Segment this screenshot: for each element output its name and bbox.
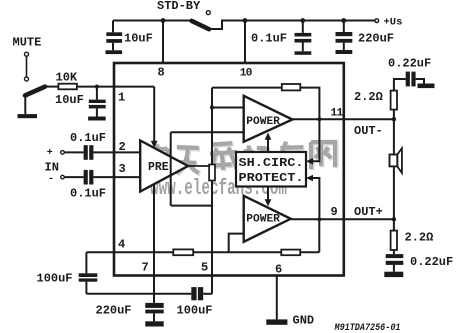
svg-text:9: 9	[331, 205, 338, 219]
wire pin 6 to ground	[276, 276, 278, 320]
svg-text:0.22uF: 0.22uF	[388, 57, 431, 71]
arrowhead mute into PRE	[151, 141, 158, 148]
svg-text:OUT-: OUT-	[354, 124, 383, 138]
resistor 10K	[58, 84, 77, 90]
op-amp PRE	[140, 141, 188, 192]
capacitor 10uF (mute pin 1)	[89, 87, 106, 117]
wire OUT- up to snubber	[393, 91, 395, 120]
wire cap to pin5 drop	[203, 293, 212, 295]
terminal IN+	[61, 151, 65, 155]
svg-text:0.1uF: 0.1uF	[70, 131, 106, 145]
junction dot feedback/pin11	[317, 117, 321, 121]
wire pin 4 row	[86, 251, 173, 253]
svg-text:0.22uF: 0.22uF	[410, 255, 453, 269]
svg-text:OUT+: OUT+	[354, 205, 383, 219]
ground (upper snubber)	[418, 84, 435, 89]
junction dot rail/pin10	[243, 18, 248, 23]
terminal IN-	[61, 175, 65, 179]
wire OUT+ down to snubber	[393, 219, 395, 230]
ground (10uF rail cap)	[106, 50, 123, 54]
svg-text:PROTECT.: PROTECT.	[239, 171, 304, 185]
wire internal feedback/pin5 vertical	[211, 88, 213, 294]
capacitor 220uF (pin 7 bottom)	[145, 303, 163, 321]
resistor 2.2R (lower)	[391, 231, 397, 250]
switch STD-BY contact dot	[207, 27, 211, 31]
ground (10uF pin1 cap)	[88, 117, 106, 121]
ground (220uF rail cap)	[336, 50, 353, 54]
wire cap to ground step	[416, 79, 424, 84]
capacitor 0.22uF (upper snubber)	[406, 72, 416, 87]
terminal MUTE lower	[25, 77, 29, 81]
resistor (pin4 left feedback)	[173, 249, 193, 255]
switch STD-BY lever	[192, 21, 210, 29]
wire sense B from pin9 to protection	[310, 178, 320, 219]
svg-text:1: 1	[118, 91, 125, 105]
svg-text:100uF: 100uF	[37, 271, 73, 285]
wire speaker to OUT+	[393, 166, 395, 219]
wire resistor to cap	[393, 250, 395, 254]
wire resistor top to cap	[394, 79, 406, 91]
svg-text:220uF: 220uF	[358, 32, 394, 46]
arrowhead sense B	[306, 175, 313, 182]
svg-text:PRE: PRE	[148, 161, 169, 174]
wire U-link left vertical	[170, 132, 172, 205]
svg-text:10: 10	[240, 67, 253, 79]
IC body U1	[114, 63, 344, 276]
switch MUTE lever	[25, 87, 45, 96]
wire cap to pin 2	[93, 151, 140, 153]
wire +Us rail left segment	[113, 20, 191, 22]
block SH.CIRC PROTECT	[236, 152, 306, 187]
wire U-link top row	[171, 131, 244, 133]
ground (220uF bottom)	[145, 321, 163, 326]
terminal MUTE upper	[25, 52, 29, 56]
svg-text:3: 3	[119, 162, 126, 176]
svg-text:10K: 10K	[56, 71, 78, 85]
resistor (internal, PRE output)	[209, 165, 215, 181]
svg-text:2: 2	[119, 140, 126, 154]
ground (lower snubber)	[384, 272, 403, 277]
switch MUTE contact dot	[44, 85, 47, 88]
ground (0.1uF rail cap)	[295, 51, 312, 55]
wire lower amp inverting input branch	[229, 234, 244, 253]
svg-text:8: 8	[158, 66, 165, 80]
resistor (upper power amp feedback)	[282, 84, 301, 90]
svg-text:POWER: POWER	[246, 116, 280, 128]
wire lever to 10K	[46, 86, 59, 88]
svg-text:10uF: 10uF	[55, 93, 84, 107]
svg-text:-: -	[48, 174, 54, 185]
ground (mute)	[18, 114, 38, 118]
wire arrow protection to POWER upper	[267, 138, 269, 153]
svg-text:0.1uF: 0.1uF	[70, 187, 106, 201]
wire between feedback resistors	[193, 251, 281, 253]
svg-text:220uF: 220uF	[96, 304, 132, 318]
svg-text:2.2Ω: 2.2Ω	[354, 90, 383, 104]
arrowhead down into POWER lower	[265, 199, 272, 206]
switch STD-BY open terminal	[206, 11, 210, 15]
wire arrow protection to POWER lower	[267, 187, 269, 202]
junction dot 10uF/pin1	[95, 85, 99, 89]
junction dot rail/220uF	[341, 18, 346, 23]
svg-text:M91TDA7256-01: M91TDA7256-01	[334, 323, 401, 333]
wire IN- to cap	[65, 176, 84, 178]
wire 10K to pin 1	[77, 86, 154, 88]
wire pin 7 vertical	[153, 184, 155, 303]
svg-text:IN: IN	[45, 161, 59, 175]
wire top feedback row	[212, 87, 282, 89]
svg-text:10uF: 10uF	[124, 32, 153, 46]
wire U-link bottom row	[171, 205, 212, 207]
svg-text:5: 5	[201, 261, 208, 275]
svg-text:7: 7	[142, 261, 149, 275]
wire right feedback resistor to pin9 net	[300, 251, 319, 253]
wire STD-BY contact to rail right	[209, 21, 375, 30]
terminal +Us	[375, 19, 379, 23]
svg-text:4: 4	[118, 237, 125, 251]
arrowhead sense A	[306, 158, 313, 165]
capacitor 0.1uF (IN-)	[84, 170, 94, 185]
wire sense A from pin11 to protection	[310, 119, 320, 161]
op-amp POWER upper	[244, 96, 293, 142]
capacitor 10uF (std-by rail decoupling)	[106, 21, 122, 51]
junction dot feedback/pin9	[317, 217, 321, 221]
svg-text:0.1uF: 0.1uF	[251, 32, 287, 46]
junction dot internal feedback/input	[210, 105, 214, 109]
wire pin 9 output line	[291, 218, 394, 220]
svg-text:6: 6	[275, 263, 282, 277]
wire pin1 internal to arrow	[153, 87, 155, 141]
wire feedback up to pin 9 line	[318, 219, 320, 252]
wire pin 10 drop	[244, 21, 246, 64]
svg-text:100uF: 100uF	[177, 304, 213, 318]
junction dot rail/pin8	[161, 18, 166, 23]
svg-text:GND: GND	[293, 313, 315, 327]
svg-text:2.2Ω: 2.2Ω	[405, 230, 434, 244]
wire mute pivot to ground	[24, 95, 26, 114]
capacitor 0.1uF (IN+)	[84, 145, 94, 160]
wire PRE output stub	[188, 165, 212, 167]
wire OUT- down to speaker	[393, 119, 395, 154]
junction dot OUT+ node	[392, 217, 396, 221]
capacitor 100uF (bottom, pin5-pin7)	[191, 287, 203, 300]
wire mute terminals	[26, 57, 28, 77]
resistor 2.2R (upper)	[391, 91, 397, 110]
junction dot rail/0.1uF	[300, 18, 305, 23]
ground (GND pin 6)	[266, 319, 287, 324]
wire bottom rail left	[86, 293, 191, 295]
svg-text:MUTE: MUTE	[13, 36, 42, 50]
resistor (lower power amp feedback)	[281, 250, 300, 256]
svg-text:+: +	[47, 148, 53, 159]
svg-text:11: 11	[331, 107, 344, 119]
wire IN+ to cap	[65, 151, 84, 153]
speaker LS	[390, 148, 402, 173]
wire cap to pin 3	[93, 176, 140, 178]
wire pin 11 output line	[292, 118, 394, 120]
svg-text:+Us: +Us	[384, 17, 403, 29]
wire to POWER1 inverting input	[212, 107, 244, 109]
arrowhead up into POWER upper	[265, 133, 272, 140]
svg-text:SH.CIRC.: SH.CIRC.	[239, 156, 304, 170]
watermark chinese characters	[149, 142, 336, 175]
junction dot OUT- node	[392, 117, 396, 121]
op-amp POWER lower	[244, 196, 291, 242]
capacitor 0.22uF (lower snubber)	[386, 254, 404, 272]
wire pin 8 drop	[162, 21, 164, 64]
svg-text:POWER: POWER	[246, 213, 280, 225]
svg-text:STD-BY: STD-BY	[157, 0, 201, 13]
capacitor 220uF (rail reservoir)	[336, 21, 353, 51]
capacitor 100uF (pin 4, left)	[79, 252, 98, 293]
wire feedback resistor to output	[300, 88, 319, 120]
capacitor 0.1uF (rail decoupling)	[295, 21, 312, 52]
